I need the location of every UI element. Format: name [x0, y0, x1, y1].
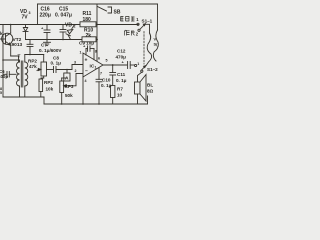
left edge fragment text	[0, 87, 2, 95]
wire speaker top lead	[138, 72, 142, 82]
svg-text:RP3: RP3	[65, 84, 74, 89]
wire bottom left rail y97	[3, 96, 44, 98]
wire output pin5	[103, 64, 127, 66]
wire right edge drop	[157, 4, 159, 30]
label A	[65, 76, 69, 82]
label VD3 7V	[20, 9, 31, 21]
plus marks	[41, 26, 125, 65]
svg-text:T: T	[18, 54, 21, 60]
label R10 2k	[84, 28, 93, 40]
svg-text:0. 1μ/600V: 0. 1μ/600V	[39, 48, 62, 53]
label R7 10	[117, 87, 123, 98]
capacitor C15	[60, 25, 66, 40]
svg-text:7V: 7V	[22, 15, 29, 21]
wire x97 vertical	[96, 4, 98, 61]
svg-text:1: 1	[137, 62, 139, 66]
svg-text:0. 1μ: 0. 1μ	[101, 83, 112, 88]
svg-text:S(: S(	[154, 42, 159, 47]
label SB	[114, 10, 121, 16]
pin number labels	[74, 50, 139, 84]
wire emitter to transformer	[11, 56, 19, 62]
svg-text:0. 1μ: 0. 1μ	[51, 61, 62, 66]
svg-text:5: 5	[0, 91, 2, 95]
label VT2 9013	[12, 37, 23, 48]
svg-text:VD: VD	[65, 23, 72, 29]
pushbutton SB	[98, 7, 112, 14]
label RP2 10k	[44, 80, 54, 92]
svg-text:9013: 9013	[12, 42, 23, 48]
wire top supply rail	[38, 3, 158, 5]
wire to pin3	[72, 65, 83, 70]
wire corner drop x37.5	[37, 4, 39, 25]
svg-text:BL: BL	[147, 83, 153, 88]
svg-text:3: 3	[29, 11, 31, 15]
transformer T	[17, 55, 28, 98]
speaker BL	[135, 75, 147, 102]
capacitor C12	[128, 62, 135, 69]
cord squiggle right	[153, 30, 158, 61]
svg-text:C9 10μ: C9 10μ	[79, 41, 94, 46]
svg-text:R7: R7	[117, 87, 123, 92]
label C11 0.1u	[116, 72, 127, 83]
label R11 180	[83, 11, 92, 23]
label C7 value	[39, 43, 62, 54]
svg-text:10: 10	[117, 93, 123, 98]
svg-text:A: A	[65, 76, 69, 82]
potentiometer RP2b 10k	[39, 79, 43, 97]
label C10 0.1u	[101, 78, 112, 89]
switch S1-1	[137, 23, 150, 33]
capacitor C6	[3, 72, 16, 78]
svg-text:C11: C11	[117, 72, 126, 77]
wire y60 from left	[3, 59, 19, 61]
wire step down	[43, 97, 45, 104]
svg-text:50k: 50k	[65, 93, 73, 98]
svg-text:3: 3	[74, 61, 76, 65]
potentiometer RP2 47k	[37, 55, 47, 80]
wire mid rail y39.5	[26, 39, 98, 41]
wire pin4 ground	[82, 77, 84, 104]
label RP2 47k	[28, 59, 37, 69]
svg-text:6: 6	[98, 57, 100, 61]
label C8 value	[51, 56, 62, 66]
svg-text:470μ: 470μ	[116, 55, 127, 60]
label BL 8ohm	[147, 83, 154, 94]
svg-text:7: 7	[100, 72, 102, 76]
resistor R7	[111, 86, 115, 105]
svg-text:SB: SB	[114, 10, 121, 16]
label S1-1	[142, 19, 153, 24]
wire y54.5	[25, 54, 44, 56]
label C9 10u	[79, 41, 94, 46]
label C16 220u	[40, 7, 51, 19]
capacitor C8	[54, 67, 73, 73]
label T	[18, 54, 21, 60]
transistor VT2	[0, 25, 13, 57]
capacitor C16	[44, 25, 50, 40]
svg-text:RP2: RP2	[44, 80, 53, 85]
label V S fragment	[154, 37, 159, 47]
svg-text:0. 1μ: 0. 1μ	[116, 78, 127, 83]
resistor R10	[82, 37, 96, 42]
switch S1-2	[135, 64, 146, 72]
op-amp IC1	[83, 53, 103, 77]
svg-text:k: k	[0, 31, 3, 36]
zener diode VD3	[23, 25, 28, 40]
ground symbol	[44, 40, 51, 46]
svg-text:S1–2: S1–2	[147, 67, 158, 72]
svg-text:5: 5	[106, 59, 108, 63]
svg-text:2: 2	[74, 25, 76, 29]
junction dots	[2, 24, 113, 105]
dashed gang link S1	[143, 32, 145, 65]
label VD2	[65, 23, 76, 29]
label tonghua1 (CJK talk)	[121, 17, 135, 22]
svg-text:8: 8	[95, 50, 97, 54]
svg-text:220μ: 220μ	[40, 13, 51, 19]
wire bottom rail y104	[44, 103, 148, 105]
wire pin7 and capacitor C10	[96, 68, 102, 105]
svg-text:10k: 10k	[46, 87, 54, 92]
label k fragment	[0, 31, 3, 36]
svg-text:0. 047μ: 0. 047μ	[55, 13, 72, 19]
wire speaker bottom lead	[137, 94, 139, 104]
LED VD2	[66, 25, 75, 40]
capacitor C7	[27, 40, 33, 55]
label C15 0.047u	[55, 7, 72, 19]
svg-text:180: 180	[83, 17, 92, 23]
wire left edge vertical	[2, 25, 4, 98]
svg-text:100p: 100p	[0, 74, 8, 79]
resistor R11	[80, 22, 96, 27]
svg-text:C7: C7	[41, 43, 47, 48]
opamp plus minus	[85, 58, 89, 75]
svg-text:C12: C12	[117, 49, 126, 54]
node A box	[64, 70, 70, 82]
capacitor C11	[110, 65, 116, 86]
wire main rail y24.5	[0, 24, 138, 26]
svg-text:2: 2	[75, 69, 77, 73]
svg-text:4: 4	[85, 79, 87, 83]
cord squiggle left	[146, 33, 152, 66]
label C12 470u	[116, 49, 127, 60]
svg-text:C10: C10	[102, 78, 111, 83]
label C6 100p	[0, 69, 8, 79]
svg-text:–: –	[85, 69, 88, 75]
svg-text:RP2: RP2	[28, 59, 37, 64]
svg-text:1: 1	[95, 66, 97, 70]
svg-text:8Ω: 8Ω	[147, 89, 154, 94]
capacitor C9	[86, 46, 94, 60]
label IC1	[90, 64, 97, 70]
label RP3 50k	[65, 84, 74, 98]
wire RP2 to C8	[47, 69, 54, 71]
svg-text:S1–1: S1–1	[142, 19, 153, 24]
label daiji2 (CJK standby)	[125, 30, 135, 36]
wire stub right bottom	[147, 96, 149, 104]
svg-text:+: +	[85, 58, 88, 64]
wire pin2	[66, 74, 83, 86]
label S1-2	[147, 67, 158, 72]
svg-text:2k: 2k	[86, 33, 92, 39]
svg-text:1: 1	[80, 51, 82, 55]
potentiometer RP3 50k	[60, 78, 67, 104]
svg-text:47k: 47k	[29, 64, 37, 69]
